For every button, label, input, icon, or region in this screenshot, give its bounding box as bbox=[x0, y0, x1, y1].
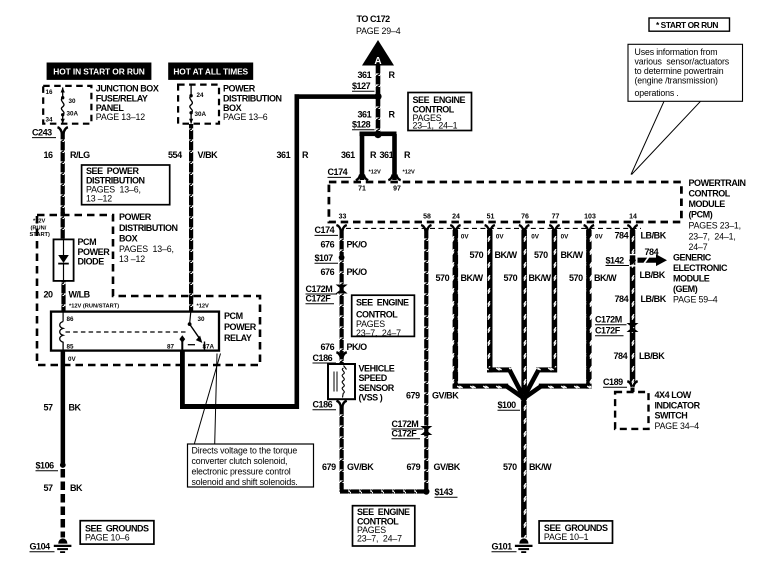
label 676 PK/O bbox=[321, 267, 368, 277]
svg-text:C172F: C172F bbox=[306, 294, 332, 304]
svg-text:HOT IN START OR RUN: HOT IN START OR RUN bbox=[53, 67, 145, 77]
svg-text:C172M: C172M bbox=[392, 419, 419, 429]
svg-text:PAGES 23–1,: PAGES 23–1, bbox=[689, 220, 741, 230]
svg-text:$106: $106 bbox=[36, 461, 55, 471]
svg-text:SPEED: SPEED bbox=[359, 373, 388, 383]
svg-text:BK/W: BK/W bbox=[495, 250, 518, 260]
node 12V (RUN/START) label bbox=[30, 219, 51, 239]
label 784 LB/BK bbox=[615, 231, 667, 241]
see grounds page 10-6 box bbox=[80, 521, 154, 544]
svg-text:ELECTRONIC: ELECTRONIC bbox=[673, 263, 728, 273]
svg-text:361: 361 bbox=[380, 150, 394, 160]
wire pin 77 diagonal to S100 bbox=[525, 370, 539, 396]
svg-text:76: 76 bbox=[521, 213, 529, 220]
svg-text:57: 57 bbox=[44, 483, 54, 493]
svg-text:C174: C174 bbox=[315, 225, 335, 235]
see grounds page 10-1 box bbox=[539, 521, 612, 543]
svg-text:87: 87 bbox=[167, 343, 175, 350]
svg-text:GENERIC: GENERIC bbox=[673, 253, 712, 263]
svg-text:Directs voltage to the torque: Directs voltage to the torque bbox=[192, 446, 298, 456]
svg-text:PCM: PCM bbox=[78, 237, 97, 247]
wire pin 77 horizontal to funnel bbox=[536, 367, 557, 372]
connector C172 bowtie symbol (wire 14) bbox=[627, 323, 639, 332]
splice S127 bbox=[352, 81, 382, 100]
svg-text:570: 570 bbox=[534, 250, 548, 260]
label 679 GV/BK (pin 58 upper) bbox=[406, 391, 459, 401]
svg-text:START): START) bbox=[30, 232, 51, 238]
svg-text:784: 784 bbox=[615, 231, 629, 241]
svg-text:*12V: *12V bbox=[403, 170, 416, 176]
svg-text:POWERTRAIN: POWERTRAIN bbox=[689, 178, 746, 188]
wire 570 BK/W pin 76 straight to S100 (hatched) bbox=[521, 230, 527, 396]
svg-text:PAGE 13–6: PAGE 13–6 bbox=[223, 112, 268, 122]
header HOT IN START OR RUN bbox=[47, 63, 152, 80]
wire pin 103 horizontal to funnel bbox=[539, 384, 592, 389]
svg-text:BOX: BOX bbox=[119, 234, 138, 244]
svg-text:converter clutch solenoid,: converter clutch solenoid, bbox=[192, 456, 288, 466]
svg-text:BK: BK bbox=[70, 483, 83, 493]
svg-text:34: 34 bbox=[46, 117, 54, 124]
callout: directs voltage note box bbox=[188, 444, 314, 487]
svg-text:R: R bbox=[404, 150, 411, 160]
svg-text:PAGE 10–6: PAGE 10–6 bbox=[85, 532, 130, 542]
off-page connector A (triangle) bbox=[362, 40, 394, 67]
wire pin 51 diagonal to S100 bbox=[510, 370, 523, 396]
dash between 87 and 87A bbox=[188, 344, 195, 346]
svg-text:51: 51 bbox=[487, 213, 495, 220]
svg-text:R: R bbox=[389, 70, 396, 80]
svg-text:0V: 0V bbox=[595, 234, 604, 241]
connector C186 lower label bbox=[313, 400, 337, 410]
wire pin 103 diagonal to S100 bbox=[526, 386, 541, 397]
callout: uses information note box bbox=[628, 44, 743, 101]
relay coil bbox=[60, 312, 63, 351]
connector pin at PCM pin 71 bbox=[356, 175, 368, 181]
wire 57 BK from relay 85 bbox=[61, 351, 66, 463]
svg-text:G101: G101 bbox=[492, 542, 513, 552]
svg-text:58: 58 bbox=[423, 213, 431, 220]
svg-text:C172F: C172F bbox=[595, 326, 621, 336]
svg-text:C243: C243 bbox=[32, 127, 52, 137]
svg-text:PAGE 13–12: PAGE 13–12 bbox=[96, 112, 145, 122]
arrow to GEM bbox=[638, 247, 668, 280]
svg-text:0V: 0V bbox=[68, 356, 77, 363]
svg-text:14: 14 bbox=[629, 213, 637, 220]
connector flare at pin 103 wire bbox=[584, 225, 595, 231]
svg-text:C186: C186 bbox=[313, 353, 333, 363]
svg-text:PK/O: PK/O bbox=[347, 267, 368, 277]
svg-text:PK/O: PK/O bbox=[347, 239, 368, 249]
svg-text:(RUN/: (RUN/ bbox=[31, 225, 47, 231]
connector C172 bowtie symbol (wire 33) bbox=[336, 285, 348, 294]
svg-text:POWER: POWER bbox=[119, 212, 152, 222]
svg-text:HOT AT ALL TIMES: HOT AT ALL TIMES bbox=[173, 67, 248, 77]
connector flare below VSS bbox=[336, 401, 346, 407]
svg-text:554: 554 bbox=[168, 150, 182, 160]
svg-text:*12V: *12V bbox=[197, 303, 210, 309]
labels 361 R branches bbox=[341, 150, 411, 160]
svg-text:57: 57 bbox=[44, 403, 54, 413]
header HOT AT ALL TIMES bbox=[168, 63, 253, 80]
ground G101 bbox=[492, 538, 533, 552]
wire horizontal to S143 (hatched) bbox=[340, 489, 427, 493]
wire 784 LB/BK pin 14 (hatched) bbox=[630, 230, 636, 384]
splice S100 bbox=[498, 395, 528, 410]
label 784 LB/BK (lower) bbox=[614, 351, 666, 361]
svg-text:LB/BK: LB/BK bbox=[640, 270, 666, 280]
svg-text:784: 784 bbox=[614, 351, 628, 361]
relay K1 PCM POWER RELAY box bbox=[51, 312, 219, 351]
svg-text:Uses information from: Uses information from bbox=[635, 47, 718, 57]
relay label bbox=[224, 311, 257, 343]
svg-text:SENSOR: SENSOR bbox=[359, 383, 395, 393]
wire pin 24 diagonal to S100 bbox=[507, 386, 523, 397]
see engine control pages 23-1 24-1 box bbox=[408, 93, 472, 131]
wire from relay 87 (thick, down then right) bbox=[180, 351, 185, 409]
svg-text:V/BK: V/BK bbox=[198, 150, 219, 160]
connector C172M C172F labels (wire 33) bbox=[306, 284, 338, 304]
wire 570 BK/W pin 77 (hatched) bbox=[552, 230, 558, 372]
power distribution box (dashed outline around diode and relay) bbox=[37, 215, 260, 365]
svg-text:361: 361 bbox=[341, 150, 355, 160]
svg-text:CONTROL: CONTROL bbox=[356, 309, 398, 319]
label 570 BK/W bbox=[503, 462, 552, 472]
svg-text:R: R bbox=[302, 150, 309, 160]
svg-text:23–7, 24–7: 23–7, 24–7 bbox=[357, 533, 402, 543]
power distribution box label bbox=[223, 84, 282, 122]
svg-text:* START OR RUN: * START OR RUN bbox=[656, 20, 718, 30]
svg-text:R/LG: R/LG bbox=[70, 150, 90, 160]
wire 554 crossing patch bbox=[189, 293, 193, 300]
svg-text:GV/BK: GV/BK bbox=[347, 462, 374, 472]
label 57 BK bbox=[44, 403, 82, 413]
svg-text:CONTROL: CONTROL bbox=[689, 189, 731, 199]
svg-text:MODULE: MODULE bbox=[673, 274, 710, 284]
fuse 24 30A bbox=[189, 86, 207, 124]
svg-text:679: 679 bbox=[406, 391, 420, 401]
wire 570 BK/W pin 24 (hatched) bbox=[453, 230, 459, 389]
svg-text:POWER: POWER bbox=[223, 84, 256, 94]
svg-text:PAGE 10–1: PAGE 10–1 bbox=[544, 532, 589, 542]
see engine control pages 23-7 24-7 box (lower) bbox=[353, 506, 415, 546]
wire 361 R from S127 to S128 (hatched) bbox=[376, 99, 381, 132]
svg-text:30: 30 bbox=[198, 316, 206, 323]
diode label bbox=[78, 237, 111, 267]
connector pin at PCM pin 97 bbox=[388, 175, 400, 181]
wire 679 GV/BK from VSS down (hatched) bbox=[340, 406, 344, 490]
see power distribution box bbox=[82, 165, 170, 205]
VSS label bbox=[359, 364, 395, 403]
diode D1 PCM POWER DIODE bbox=[54, 239, 74, 281]
svg-text:23–7, 24–1,: 23–7, 24–1, bbox=[689, 231, 736, 241]
svg-text:A: A bbox=[374, 56, 381, 67]
connector C174 top label bbox=[328, 167, 352, 177]
connector C172M C172F labels (wire 14) bbox=[595, 315, 627, 336]
connector C172 bowtie symbol (wire 58) bbox=[420, 426, 432, 435]
svg-text:C172M: C172M bbox=[306, 284, 333, 294]
junction box label text bbox=[96, 84, 159, 122]
svg-text:86: 86 bbox=[67, 316, 75, 323]
ground G104 bbox=[30, 538, 72, 552]
power distribution box (dashed, top right fuse) bbox=[178, 85, 219, 124]
svg-text:PK/O: PK/O bbox=[347, 342, 368, 352]
svg-text:C174: C174 bbox=[328, 167, 348, 177]
svg-text:0V: 0V bbox=[461, 234, 470, 241]
svg-text:30: 30 bbox=[69, 98, 77, 105]
connector flare at pin 33 wire bbox=[336, 225, 346, 231]
svg-text:$127: $127 bbox=[352, 81, 371, 91]
svg-text:LB/BK: LB/BK bbox=[641, 294, 667, 304]
svg-text:(VSS ): (VSS ) bbox=[359, 393, 383, 403]
wire 361 R right branch (hatched) bbox=[392, 134, 397, 180]
svg-text:570: 570 bbox=[504, 273, 518, 283]
label 57 BK lower bbox=[44, 483, 84, 493]
wire 676 PK/O pin 33 to VSS (hatched) bbox=[340, 230, 344, 364]
splice S106 bbox=[36, 461, 66, 471]
GEM label bbox=[673, 253, 728, 305]
relay terminal 87A bbox=[204, 342, 206, 351]
label 784 LB/BK (mid) bbox=[615, 294, 667, 304]
svg-text:*12V: *12V bbox=[33, 219, 46, 225]
svg-text:FUSE/RELAY: FUSE/RELAY bbox=[96, 93, 148, 103]
labels 570 BK/W (lower row) bbox=[436, 273, 618, 283]
svg-text:23–7, 24–7: 23–7, 24–7 bbox=[356, 328, 401, 338]
svg-text:TO C172: TO C172 bbox=[357, 14, 391, 24]
svg-text:570: 570 bbox=[436, 273, 450, 283]
splice S142 bbox=[606, 255, 637, 266]
label 361 R bbox=[358, 110, 396, 120]
PCM label bbox=[689, 178, 746, 252]
svg-text:676: 676 bbox=[321, 267, 335, 277]
svg-text:676: 676 bbox=[321, 239, 335, 249]
svg-text:570: 570 bbox=[503, 462, 517, 472]
wire 20 W/LB (hatched) bbox=[61, 281, 65, 312]
svg-text:23–1, 24–1: 23–1, 24–1 bbox=[413, 121, 458, 131]
wire 570 BK/W from S100 to G101 (hatched) bbox=[521, 401, 527, 538]
wire 16 crossing patch bbox=[61, 212, 65, 219]
svg-text:361: 361 bbox=[358, 70, 372, 80]
label 554 V/BK bbox=[168, 150, 218, 160]
svg-text:JUNCTION BOX: JUNCTION BOX bbox=[96, 84, 159, 94]
label 679 GV/BK bbox=[322, 462, 374, 472]
svg-text:R: R bbox=[389, 110, 396, 120]
svg-text:*12V: *12V bbox=[369, 170, 382, 176]
svg-text:784: 784 bbox=[615, 294, 629, 304]
svg-text:33: 33 bbox=[339, 213, 347, 220]
svg-text:BK/W: BK/W bbox=[594, 273, 617, 283]
svg-text:13 –12: 13 –12 bbox=[119, 254, 145, 264]
PCM bottom pin labels 33 58 24 51 76 77 103 14 bbox=[339, 213, 637, 220]
svg-text:$142: $142 bbox=[606, 255, 625, 265]
svg-text:570: 570 bbox=[569, 273, 583, 283]
svg-text:361: 361 bbox=[277, 150, 291, 160]
svg-text:SEE ENGINE: SEE ENGINE bbox=[356, 298, 409, 308]
svg-text:$107: $107 bbox=[315, 253, 334, 263]
svg-text:20: 20 bbox=[44, 289, 54, 299]
label 361 R bbox=[358, 70, 396, 80]
svg-text:R: R bbox=[370, 150, 377, 160]
label 20 W/LB bbox=[44, 289, 91, 299]
svg-text:103: 103 bbox=[584, 213, 596, 220]
wire 361 R from triangle to S127 (hatched) bbox=[376, 66, 381, 94]
connector flare above VSS bbox=[336, 352, 346, 358]
see engine control pages 23-7 24-7 box (upper) bbox=[352, 295, 415, 338]
svg-text:POWER: POWER bbox=[224, 322, 257, 332]
svg-text:LB/BK: LB/BK bbox=[639, 351, 665, 361]
svg-text:16: 16 bbox=[46, 89, 54, 96]
junction box fuse/relay panel (dashed box) bbox=[43, 86, 91, 124]
wire 570 BK/W pin 103 (hatched) bbox=[586, 230, 592, 389]
svg-text:to determine powertrain: to determine powertrain bbox=[635, 66, 724, 76]
connector flare at pin 77 wire bbox=[549, 225, 560, 231]
connector flare at pin 24 wire bbox=[450, 225, 460, 231]
label TO C172 PAGE 29-4 bbox=[356, 14, 401, 36]
svg-text:784: 784 bbox=[645, 247, 659, 257]
4x4 low indicator switch (dashed box) bbox=[615, 392, 648, 429]
relay switch from pin 30 bbox=[188, 312, 203, 343]
svg-text:16: 16 bbox=[44, 150, 54, 160]
callout pointer lines to relay bbox=[194, 354, 220, 445]
svg-text:PAGE 34–4: PAGE 34–4 bbox=[655, 421, 700, 431]
svg-text:$143: $143 bbox=[435, 487, 454, 497]
svg-text:solenoid and shift solenoids.: solenoid and shift solenoids. bbox=[192, 477, 298, 487]
svg-text:679: 679 bbox=[322, 462, 336, 472]
splice S143 bbox=[423, 487, 457, 497]
PCM powertrain control module (dashed box) bbox=[329, 182, 682, 222]
svg-text:24–7: 24–7 bbox=[689, 242, 708, 252]
fuse 30 30A bbox=[61, 87, 79, 123]
svg-text:PAGE 29–4: PAGE 29–4 bbox=[356, 26, 401, 36]
label 16 R/LG bbox=[44, 150, 91, 160]
svg-text:BK/W: BK/W bbox=[529, 273, 552, 283]
svg-text:(engine /transmission): (engine /transmission) bbox=[635, 76, 718, 86]
svg-text:MODULE: MODULE bbox=[689, 199, 726, 209]
svg-text:(PCM): (PCM) bbox=[689, 210, 713, 220]
wire 570 BK/W pin 51 (hatched) bbox=[487, 230, 493, 372]
connector flare at pin 58 wire bbox=[421, 225, 431, 231]
svg-text:DIODE: DIODE bbox=[78, 257, 105, 267]
svg-text:0V: 0V bbox=[561, 234, 570, 241]
labels 570 BK/W (upper row) bbox=[470, 250, 584, 260]
callout pointer lines to PCM bbox=[631, 101, 701, 174]
splice S107 bbox=[315, 253, 345, 263]
svg-text:77: 77 bbox=[552, 213, 560, 220]
svg-text:*12V (RUN/START): *12V (RUN/START) bbox=[69, 303, 119, 309]
wire 554 V/BK (hatched) bbox=[189, 124, 193, 312]
header * START OR RUN box bbox=[649, 18, 730, 31]
svg-text:DISTRIBUTION: DISTRIBUTION bbox=[223, 93, 282, 103]
svg-text:24: 24 bbox=[452, 213, 460, 220]
svg-text:RELAY: RELAY bbox=[224, 333, 252, 343]
connector C186 upper label bbox=[313, 353, 337, 363]
label 676 PK/O bbox=[321, 239, 368, 249]
svg-text:G104: G104 bbox=[30, 542, 51, 552]
wire pin 24 horizontal to funnel bbox=[453, 384, 509, 389]
svg-text:C172F: C172F bbox=[392, 429, 418, 439]
connector C172M C172F labels (wire 58) bbox=[392, 419, 424, 439]
label 679 GV/BK (pin 58 lower) bbox=[407, 462, 461, 472]
svg-text:85: 85 bbox=[67, 343, 75, 350]
wire pin 51 horizontal to funnel bbox=[487, 367, 511, 372]
svg-text:30A: 30A bbox=[67, 111, 79, 118]
svg-text:570: 570 bbox=[470, 250, 484, 260]
svg-text:BK/W: BK/W bbox=[561, 250, 584, 260]
svg-text:POWER: POWER bbox=[78, 247, 111, 257]
svg-text:C189: C189 bbox=[603, 377, 623, 387]
svg-text:C186: C186 bbox=[313, 400, 333, 410]
svg-text:various sensor/actuators: various sensor/actuators bbox=[635, 57, 730, 67]
connector flare at pin 76 wire bbox=[519, 225, 530, 231]
power distribution box label (lower) bbox=[119, 212, 178, 264]
svg-text:$128: $128 bbox=[352, 120, 371, 130]
svg-text:PAGE 59–4: PAGE 59–4 bbox=[673, 295, 718, 305]
svg-text:676: 676 bbox=[321, 342, 335, 352]
svg-text:24: 24 bbox=[197, 92, 205, 99]
svg-text:operations .: operations . bbox=[635, 88, 679, 98]
svg-text:SWITCH: SWITCH bbox=[655, 410, 688, 420]
svg-text:BK: BK bbox=[69, 403, 82, 413]
svg-text:BK/W: BK/W bbox=[461, 273, 484, 283]
connector C243 bbox=[32, 127, 68, 137]
svg-text:361: 361 bbox=[358, 110, 372, 120]
svg-text:13 –12: 13 –12 bbox=[86, 194, 112, 204]
svg-text:(GEM): (GEM) bbox=[673, 284, 698, 294]
label 676 PK/O bbox=[321, 342, 368, 352]
svg-text:GV/BK: GV/BK bbox=[434, 462, 461, 472]
wire 57 BK below S106 (dashed) bbox=[61, 469, 66, 538]
connector C174 lower label bbox=[315, 225, 339, 235]
4x4 switch label bbox=[655, 390, 701, 431]
svg-text:679: 679 bbox=[407, 462, 421, 472]
svg-text:C172M: C172M bbox=[595, 315, 622, 325]
svg-text:electronic pressure control: electronic pressure control bbox=[192, 467, 291, 477]
relay terminal 87 bbox=[179, 335, 185, 350]
wire 679 GV/BK pin 58 (hatched) bbox=[424, 230, 428, 492]
svg-text:PAGES 13–6,: PAGES 13–6, bbox=[119, 244, 174, 254]
label 361 R trunk bbox=[277, 150, 310, 160]
svg-text:97: 97 bbox=[393, 186, 401, 193]
svg-text:GV/BK: GV/BK bbox=[432, 391, 459, 401]
svg-text:4X4 LOW: 4X4 LOW bbox=[655, 390, 692, 400]
wire trunk 361 R vertical bbox=[295, 94, 300, 409]
svg-text:W/LB: W/LB bbox=[69, 289, 91, 299]
vehicle speed sensor VSS box bbox=[328, 364, 355, 399]
wire 361 R left branch (hatched) bbox=[360, 134, 365, 180]
svg-text:$100: $100 bbox=[498, 400, 517, 410]
connector flare at pin 14 wire bbox=[627, 225, 638, 231]
svg-text:LB/BK: LB/BK bbox=[641, 231, 667, 241]
svg-text:VEHICLE: VEHICLE bbox=[359, 364, 395, 374]
wire split bar at S128 bbox=[360, 132, 397, 137]
svg-text:0V: 0V bbox=[496, 234, 505, 241]
node 0V labels bbox=[461, 234, 604, 241]
svg-text:INDICATOR: INDICATOR bbox=[655, 401, 701, 411]
relay armature dashed link bbox=[66, 331, 189, 333]
svg-text:30A: 30A bbox=[195, 111, 207, 118]
wire 16 R/LG (hatched) bbox=[61, 132, 65, 239]
svg-text:71: 71 bbox=[358, 186, 366, 193]
connector flare at pin 51 wire bbox=[485, 225, 495, 231]
svg-text:PCM: PCM bbox=[224, 311, 243, 321]
svg-text:DISTRIBUTION: DISTRIBUTION bbox=[119, 223, 178, 233]
wire horizontal relay 87 to trunk bbox=[180, 404, 298, 409]
connector C174 line (thin dashed) bbox=[346, 227, 641, 229]
svg-text:BK/W: BK/W bbox=[529, 462, 552, 472]
connector C189 bbox=[603, 377, 638, 392]
svg-text:0V: 0V bbox=[531, 234, 540, 241]
splice S128 bbox=[352, 120, 382, 139]
wire trunk horizontal to S127 bbox=[295, 94, 379, 99]
